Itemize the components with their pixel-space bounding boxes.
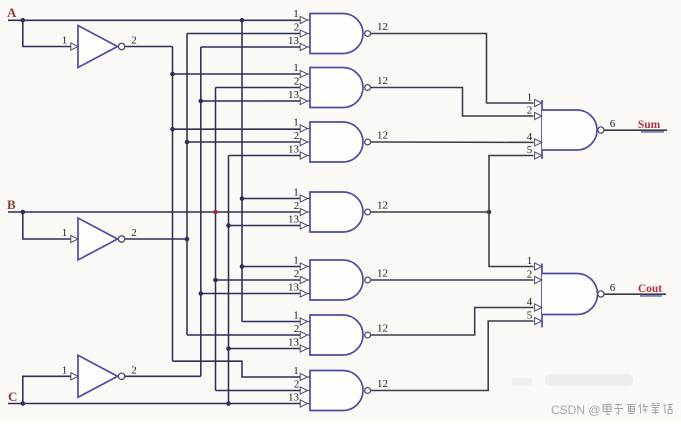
wire net A: drop from A line into inverter U1 input: [23, 20, 71, 46]
wire net A' : branch to gate3 pin 1: [173, 128, 302, 130]
junction B' at inverter U2 output: [185, 237, 190, 242]
inverter U2 (input B): [71, 218, 125, 260]
wire gate4 output branch up to Sum gate pin 5: [489, 156, 534, 213]
svg-text:1: 1: [62, 227, 68, 239]
wire net A: branch to gate4 pin 1: [242, 198, 301, 200]
wire gate4 output branch down to Cout gate pin 1: [489, 212, 534, 267]
node A at vertical bus tap: [240, 18, 245, 23]
wire Sum net-name underline: [641, 131, 664, 133]
svg-text:13: 13: [288, 282, 300, 294]
junction B to gate5 pin2: [213, 278, 218, 283]
svg-text:2: 2: [294, 200, 300, 212]
wire net C: branch to gate6 pin 13: [229, 348, 302, 350]
wire net C' : branch to gate5 pin 13: [201, 293, 301, 295]
wire net A' : vertical bus x=172.5: [172, 47, 174, 362]
node B at vertical bus tap (red junction): [213, 210, 218, 215]
svg-text:13: 13: [288, 89, 300, 101]
wire net A' : branch to gate2 pin 1: [173, 73, 302, 75]
svg-text:5: 5: [527, 144, 533, 156]
svg-text:13: 13: [288, 144, 300, 156]
wire gate3 output pin12 to Sum gate pin 4: [370, 141, 533, 143]
wire net C: rise from C line into inverter U3 input: [23, 376, 71, 403]
wire net A: branch to gate6 pin 1: [242, 321, 301, 323]
node B at inverter U2 tap: [21, 210, 26, 215]
junction A' to gate2 pin1: [170, 72, 175, 77]
svg-text:C: C: [8, 389, 17, 404]
svg-text:Cout: Cout: [638, 283, 662, 295]
svg-text:1: 1: [62, 364, 68, 376]
inverter U1 (input A): [71, 26, 125, 68]
svg-text:1: 1: [293, 255, 299, 267]
node C at vertical bus tap: [226, 401, 231, 406]
wire net B' : inverter U2 output to vertical bus x=187: [125, 238, 188, 240]
svg-text:4: 4: [527, 131, 533, 143]
svg-text:1: 1: [293, 187, 299, 199]
wire net C: branch to gate3 pin 13: [229, 155, 302, 157]
junction C' to gate2 pin13: [199, 99, 204, 104]
junction B' to gate3 pin2: [185, 140, 190, 145]
node C at inverter U3 tap: [21, 401, 26, 406]
wire net A: vertical bus branch x=242 feeding gates 4,5,6 pin1: [241, 20, 243, 321]
svg-text:2: 2: [131, 35, 137, 47]
svg-text:13: 13: [288, 214, 300, 226]
svg-text:1: 1: [293, 62, 299, 74]
junction A to gate4 pin1: [240, 196, 245, 201]
node A at inverter U1 tap: [21, 18, 26, 23]
wire gate6 output pin12 to Cout gate pin 4: [370, 308, 533, 336]
svg-text:2: 2: [294, 22, 300, 34]
wire net A: branch to gate5 pin 1: [242, 266, 301, 268]
NAND gate U9 Cout (4-input, pins 1,2,4,5 -> 6): [535, 263, 604, 328]
svg-text:6: 6: [610, 118, 616, 130]
wire gate7 output pin12 to Cout gate pin 5: [370, 321, 533, 391]
wire net C' : branch to gate2 pin 13: [201, 100, 301, 102]
wire net B' : branch to gate3 pin 2: [187, 141, 301, 143]
svg-text:13: 13: [288, 392, 300, 404]
wire net B: branch to gate7 pin 2: [216, 390, 302, 392]
wire Cout net-name underline: [640, 295, 662, 297]
svg-text:6: 6: [610, 282, 616, 294]
wire net C' : vertical bus x=200.8: [200, 47, 202, 376]
NAND gate G1 (3-input, pins 1,2,13 -> 12): [300, 14, 370, 54]
svg-text:A: A: [7, 5, 17, 20]
wire gate5 output pin12 to Cout gate pin 2: [370, 279, 533, 281]
wire net B: branch to gate5 pin 2: [216, 279, 302, 281]
svg-text:1: 1: [293, 8, 299, 20]
wire net B' : branch to gate6 pin 2: [187, 334, 301, 336]
svg-text:1: 1: [293, 365, 299, 377]
NAND gate G5 (3-input, pins 1,2,13 -> 12): [300, 260, 370, 300]
svg-text:2: 2: [131, 364, 137, 376]
svg-text:12: 12: [377, 378, 388, 390]
svg-text:1: 1: [527, 255, 533, 267]
svg-text:12: 12: [377, 130, 388, 142]
svg-text:Sum: Sum: [638, 119, 661, 131]
NAND gate G3 (3-input, pins 1,2,13 -> 12): [300, 122, 370, 162]
junction A' to gate3 pin1: [170, 127, 175, 132]
wire net B: drop from B line into inverter U2 input: [23, 212, 71, 239]
NAND gate U8 Sum (4-input, pins 1,2,4,5 -> 6): [535, 99, 604, 159]
inverter U3 (input C): [71, 355, 125, 397]
junction C to gate6 pin13: [226, 346, 231, 351]
svg-text:13: 13: [288, 337, 300, 349]
junction C' to gate5 pin13: [199, 291, 204, 296]
svg-text:1: 1: [293, 117, 299, 129]
wire net A: input A horizontal line to gate1 pin 1: [8, 19, 301, 21]
wire net A' : inverter U1 output to vertical bus x=172.5: [125, 46, 173, 48]
wire Cout output net: [604, 293, 666, 295]
svg-text:1: 1: [527, 92, 533, 104]
svg-text:4: 4: [527, 296, 533, 308]
svg-text:12: 12: [377, 200, 388, 212]
wire gate2 output pin12 to Sum gate pin 2: [370, 88, 533, 117]
svg-text:1: 1: [293, 310, 299, 322]
svg-text:12: 12: [377, 323, 388, 335]
wire gate4 output pin12 horizontal: [370, 211, 489, 213]
wire net B' : branch to gate1 pin 2: [187, 33, 301, 35]
wire net C: input C horizontal line to gate7 pin 13: [8, 403, 301, 405]
svg-text:13: 13: [288, 35, 300, 47]
svg-text:2: 2: [294, 76, 300, 88]
wire gate1 output pin12 to Sum gate pin 1: [370, 34, 533, 104]
svg-text:2: 2: [131, 227, 137, 239]
wire Sum output net: [604, 129, 667, 131]
wire net A' : bottom jog over to gate7 pin 1: [173, 361, 302, 377]
wire net C: branch to gate4 pin 13: [229, 225, 302, 227]
junction gate4 output fanout: [487, 210, 492, 215]
svg-text:2: 2: [294, 130, 300, 142]
svg-text:12: 12: [377, 21, 388, 33]
faint watermark smudge: [545, 374, 633, 386]
wire net C' : branch to gate1 pin 13: [201, 46, 301, 48]
NAND gate G2 (3-input, pins 1,2,13 -> 12): [300, 68, 370, 108]
wire net C: vertical bus x=228.5 feeding gates 3,4,6 pin13: [228, 156, 230, 404]
wire net B: input B horizontal line to gate4 pin 2: [8, 211, 301, 213]
wire net B: vertical bus x=215.5 feeding gates 2,5,7 pin2: [215, 88, 217, 391]
svg-text:2: 2: [294, 379, 300, 391]
svg-text:1: 1: [62, 35, 68, 47]
wire net B' : vertical bus x=187: [186, 34, 188, 336]
svg-text:2: 2: [294, 323, 300, 335]
junction A to gate5 pin1: [240, 264, 245, 269]
svg-text:2: 2: [294, 268, 300, 280]
svg-text:2: 2: [527, 269, 533, 281]
svg-text:CSDN @: CSDN @: [551, 403, 601, 417]
NAND gate G4 (3-input, pins 1,2,13 -> 12): [300, 192, 370, 232]
junction C to gate4 pin13: [226, 223, 231, 228]
svg-text:12: 12: [377, 268, 388, 280]
svg-text:2: 2: [527, 105, 533, 117]
watermark CJK glyphs: [603, 404, 673, 415]
svg-text:B: B: [7, 197, 16, 212]
wire net C' : inverter U3 output to vertical bus x=200.8: [125, 375, 201, 377]
svg-text:12: 12: [377, 75, 388, 87]
svg-text:5: 5: [527, 310, 533, 322]
wire net B: branch to gate2 pin 2: [216, 87, 302, 89]
NAND gate G6 (3-input, pins 1,2,13 -> 12): [300, 315, 370, 355]
NAND gate G7 (3-input, pins 1,2,13 -> 12): [300, 371, 370, 411]
